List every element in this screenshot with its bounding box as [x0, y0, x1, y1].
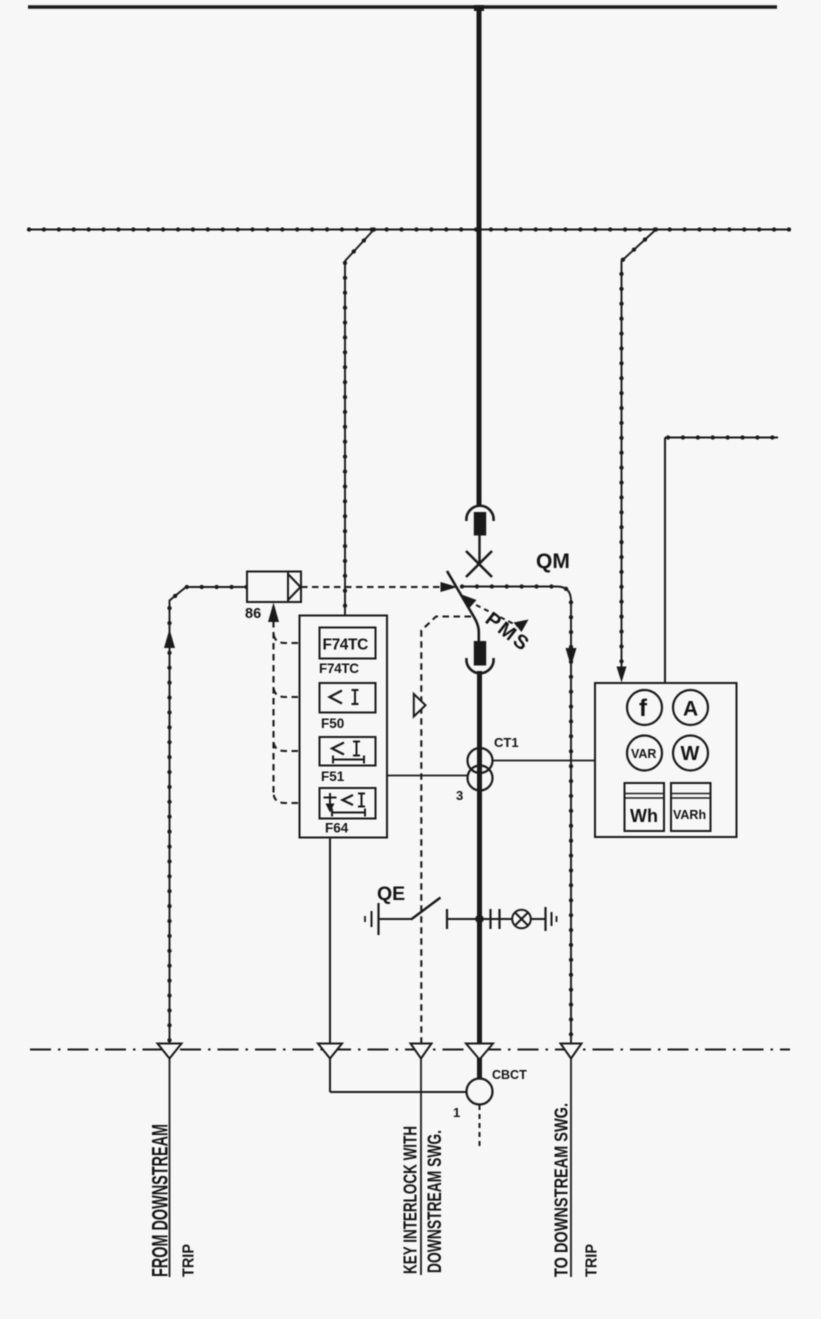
withdrawable contact top (plug): [474, 512, 486, 536]
core balance CT CBCT: [467, 1079, 493, 1105]
svg-text:CBCT: CBCT: [492, 1068, 527, 1082]
voltage indicator terminal bar: [446, 909, 448, 929]
arrow PMS at blade: [462, 595, 477, 609]
svg-text:F64: F64: [325, 821, 349, 836]
relay 86 flag: [288, 572, 301, 603]
withdrawable contact top (arc): [466, 506, 493, 521]
svg-text:QM: QM: [536, 550, 570, 573]
boundary cubicle line (dash-dot): [30, 1049, 790, 1051]
boundary marker at from-downstream wire: [158, 1044, 182, 1059]
svg-text:KEY INTERLOCK WITH: KEY INTERLOCK WITH: [401, 1126, 421, 1274]
relay function F50 box: [320, 683, 376, 713]
earth symbol right: [544, 907, 546, 931]
svg-text:TRIP: TRIP: [584, 1244, 601, 1277]
wire main feeder lower (thick): [477, 671, 482, 1079]
svg-text:TO DOWNSTREAM SWG.: TO DOWNSTREAM SWG.: [552, 1103, 572, 1277]
boundary marker at relay wire: [318, 1044, 342, 1059]
svg-text:1: 1: [453, 1105, 460, 1120]
svg-text:3: 3: [456, 788, 463, 803]
wire relay panel to CT1: [387, 775, 468, 777]
svg-text:F74TC: F74TC: [323, 637, 369, 654]
relay panel box: [300, 616, 388, 838]
arrow trip at breaker: [441, 582, 458, 592]
wire downstream-trip below boundary: [570, 1058, 572, 1277]
relay function F74TC box: [320, 628, 376, 659]
svg-text:F74TC: F74TC: [319, 661, 359, 676]
wire key-interlock below boundary: [420, 1058, 422, 1275]
svg-text:VARh: VARh: [673, 808, 706, 822]
wire key-interlock dashed: [421, 617, 471, 1050]
earthing switch QE earth symbol: [377, 903, 379, 935]
svg-text:Wh: Wh: [630, 806, 658, 826]
wire lamp to earth: [531, 918, 546, 920]
svg-text:CT1: CT1: [494, 735, 519, 750]
node junction on feeder: [475, 915, 484, 924]
svg-text:F50: F50: [321, 716, 344, 731]
meter W: [673, 736, 708, 771]
meter f: [627, 690, 662, 725]
withdrawable contact bottom (plug): [474, 641, 486, 666]
wire dotted control bus: [29, 229, 791, 231]
svg-text:W: W: [681, 743, 700, 765]
svg-text:FROM DOWNSTREAM: FROM DOWNSTREAM: [148, 1124, 173, 1277]
svg-text:F51: F51: [321, 769, 345, 784]
arrow PMS outward: [514, 620, 529, 633]
svg-text:A: A: [683, 698, 698, 721]
lamp symbol: [512, 910, 531, 929]
symbol F64 earth-fault arrow: [324, 793, 337, 805]
svg-text:VAR: VAR: [631, 747, 656, 761]
arrow down on downstream trip wire: [566, 648, 577, 667]
withdrawable contact bottom (arc): [466, 658, 493, 673]
wire from-downstream-trip dotted: [170, 587, 247, 1049]
arrow into meter panel: [617, 667, 627, 683]
relay 86 (lockout) box: [247, 572, 301, 603]
boundary marker at feeder: [466, 1044, 493, 1060]
wire link to breaker: [478, 535, 480, 564]
circuit breaker QM blade: [447, 571, 479, 641]
wire trip stub F51: [274, 740, 321, 751]
svg-text:PMS: PMS: [481, 608, 535, 657]
relay function F51 box: [320, 737, 376, 766]
wire from-downstream below boundary: [169, 1058, 171, 1277]
meter VARh: [671, 783, 711, 831]
wire meter feed vertical: [664, 438, 666, 684]
svg-text:TRIP: TRIP: [181, 1244, 198, 1277]
wire relay panel to boundary: [329, 838, 331, 1093]
wire feeder below CBCT (dashed): [479, 1105, 481, 1147]
boundary marker at downstream trip wire: [561, 1044, 582, 1059]
wire PMS dashed link: [468, 601, 518, 626]
capacitor bars: [491, 909, 500, 929]
wire branch to relay panel (dotted): [345, 230, 374, 616]
meter Wh: [625, 783, 665, 831]
wire branch to meter panel (dotted): [622, 230, 657, 672]
arrow trip-collector into 86: [268, 603, 279, 623]
symbol F51 overcurrent + time: [332, 743, 344, 755]
wire QE: [379, 918, 412, 920]
wire lamp row: [447, 918, 513, 920]
meter VAR: [627, 736, 662, 771]
meter A: [673, 690, 708, 725]
wire trip stub F50: [274, 686, 321, 697]
wire trip stub F64: [274, 792, 321, 803]
wire trip dashed from relay 86 to breaker: [301, 586, 440, 588]
svg-text:DOWNSTREAM SWG.: DOWNSTREAM SWG.: [425, 1130, 446, 1273]
wire trip collector dashed trunk: [272, 621, 274, 793]
wire trip stub F74TC: [274, 632, 321, 643]
relay function F64 box: [320, 788, 376, 819]
arrow key-interlock (open): [414, 694, 426, 717]
boundary marker at key-interlock wire: [411, 1044, 432, 1059]
wire dotted top-right feed: [665, 437, 778, 439]
svg-text:86: 86: [245, 606, 261, 622]
busbar top (incoming bus): [28, 5, 777, 9]
circuit breaker QM (X symbol): [466, 551, 492, 577]
symbol F64 current: [343, 795, 354, 805]
arrow up on from-downstream wire: [164, 629, 175, 648]
meter panel box: [595, 683, 737, 837]
node bus junction: [474, 5, 484, 11]
wire main feeder upper (thick): [477, 7, 482, 506]
wire CT1 to meter panel: [493, 760, 596, 762]
symbol F50 overcurrent: [330, 691, 343, 704]
current transformer CT1: [468, 748, 493, 773]
svg-text:QE: QE: [377, 883, 405, 905]
earthing switch QE blade: [411, 898, 441, 920]
svg-text:f: f: [639, 695, 648, 722]
wire trip dotted QM to downstream: [462, 587, 571, 1050]
wire relay to CBCT: [330, 1091, 467, 1093]
